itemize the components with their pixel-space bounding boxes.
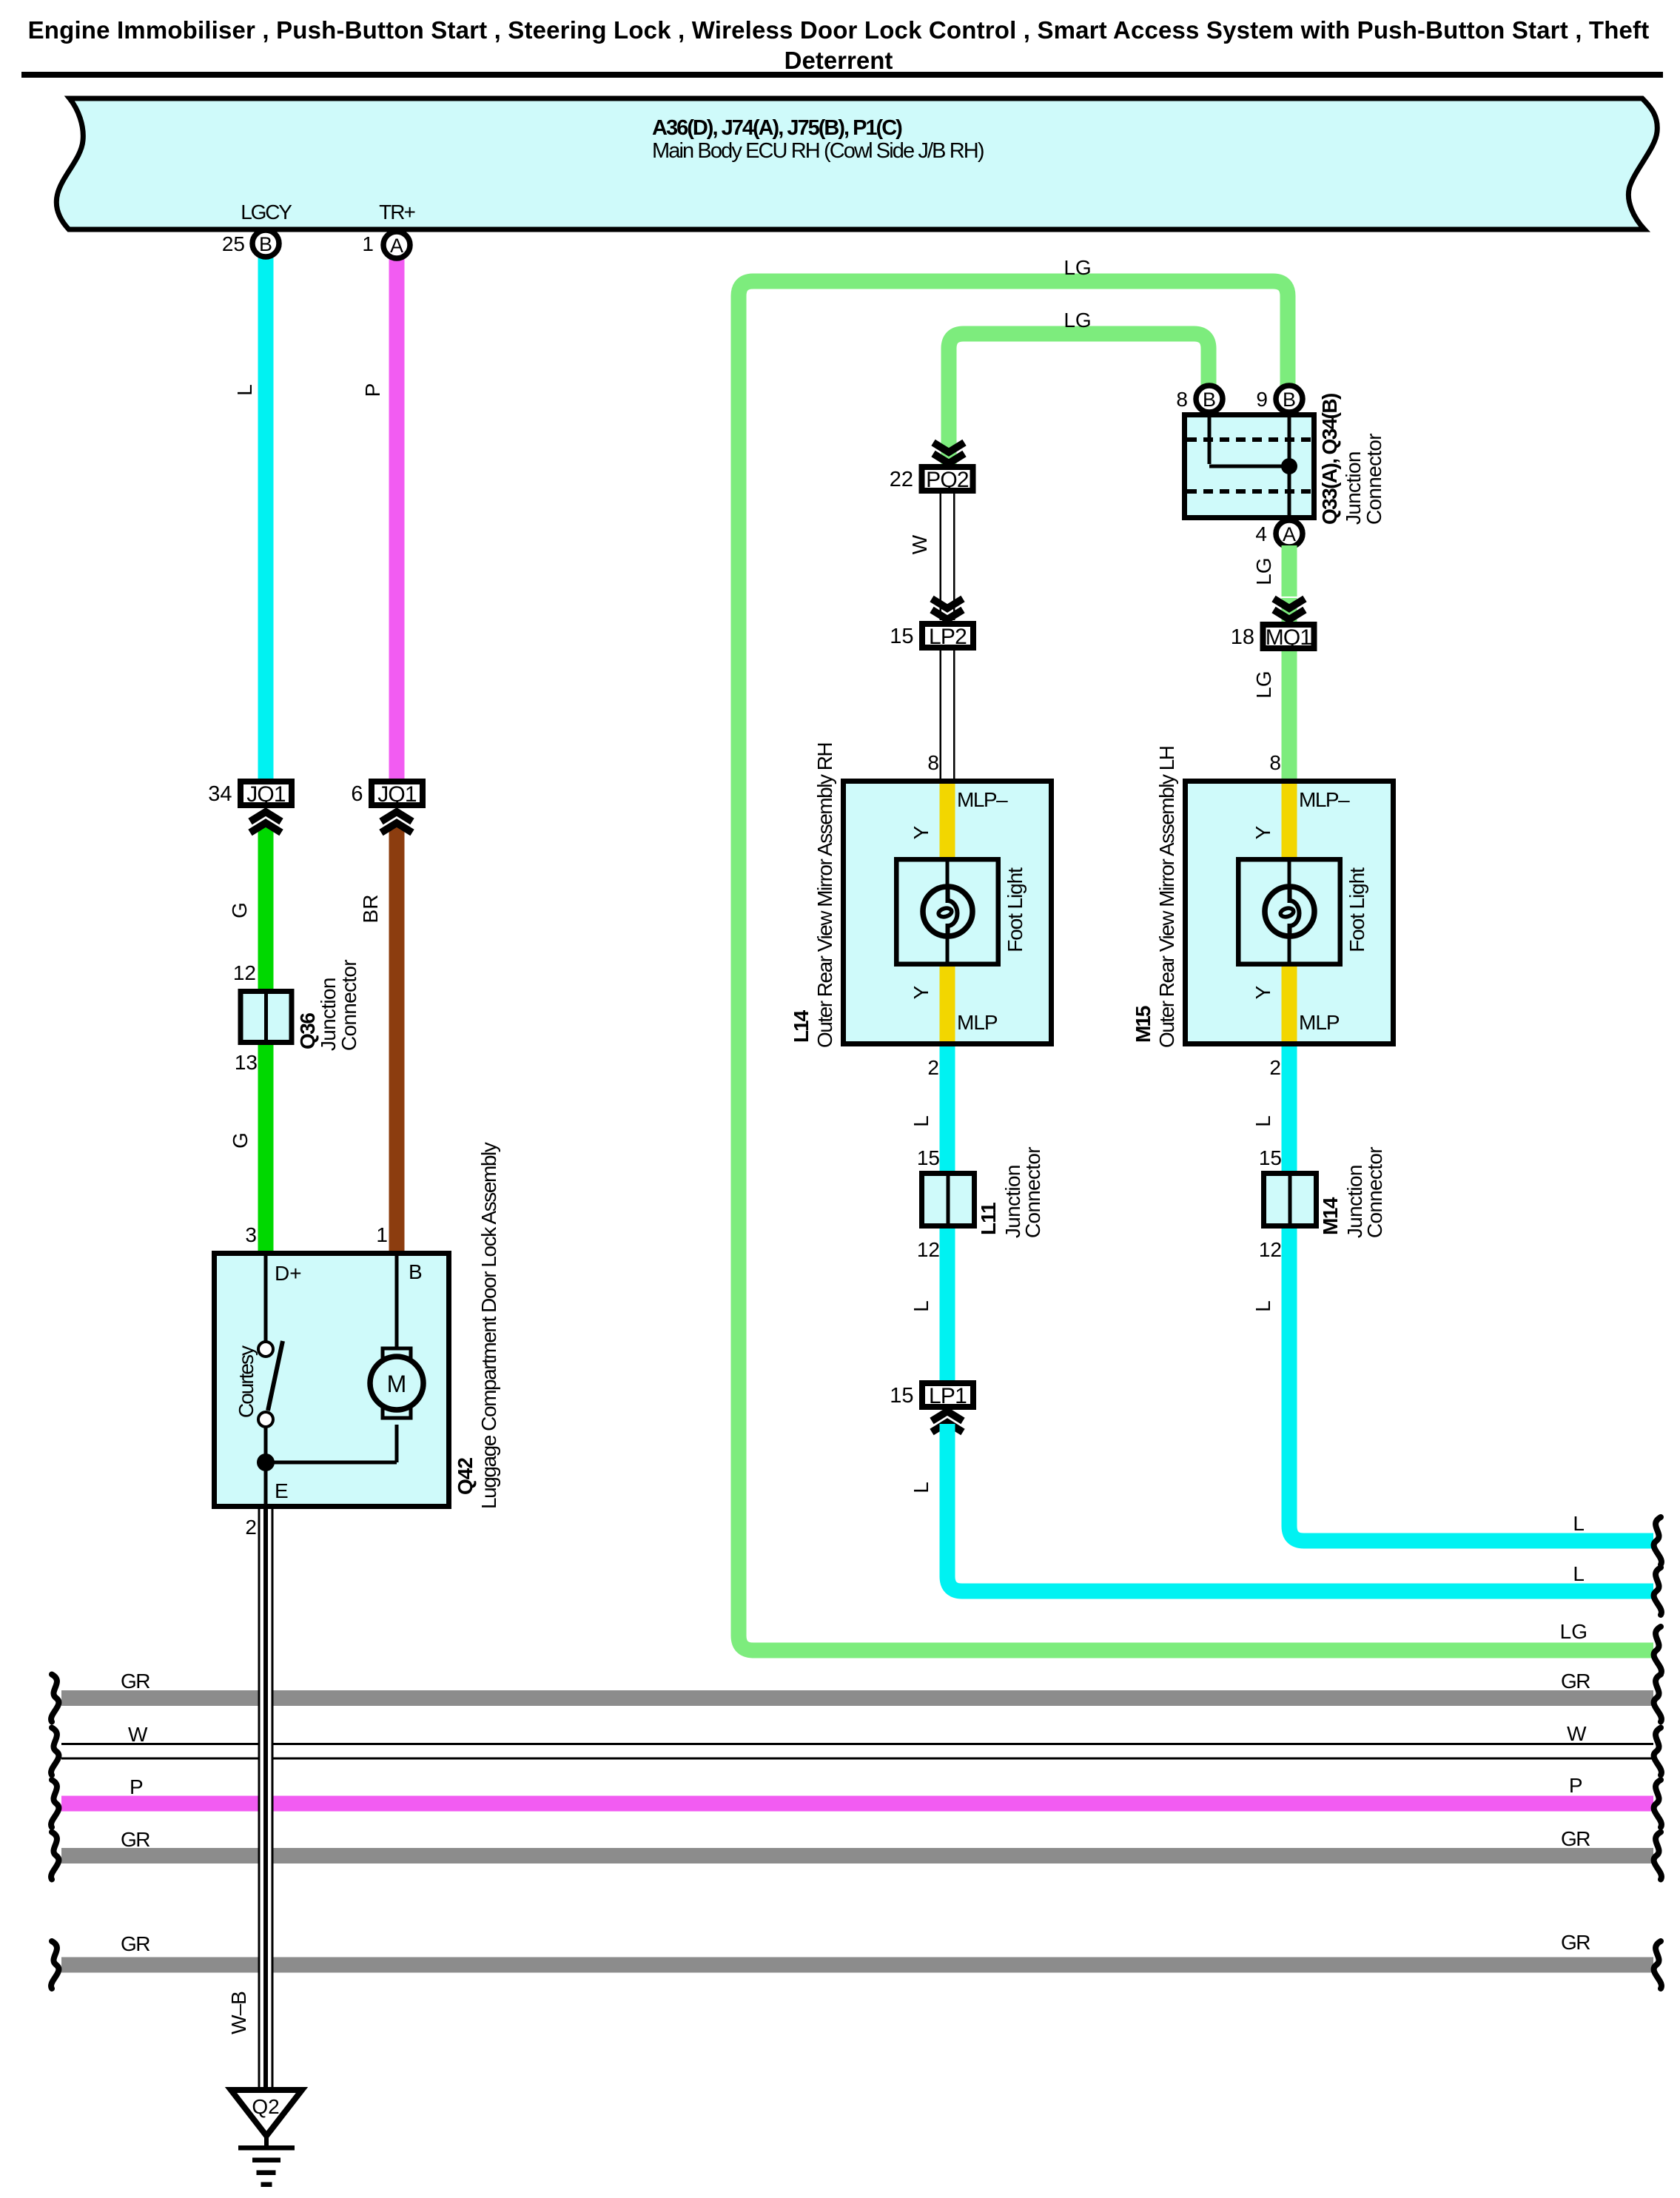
svg-text:P: P	[130, 1775, 143, 1798]
svg-text:P: P	[361, 383, 384, 397]
svg-text:3: 3	[245, 1223, 257, 1246]
svg-text:Courtesy: Courtesy	[235, 1345, 258, 1418]
svg-text:M15: M15	[1132, 1006, 1155, 1043]
svg-text:1: 1	[362, 232, 374, 255]
svg-text:12: 12	[233, 961, 256, 984]
svg-text:GR: GR	[121, 1670, 149, 1693]
svg-text:15: 15	[1259, 1146, 1282, 1169]
svg-text:Outer Rear View Mirror Assembl: Outer Rear View Mirror Assembly RH	[813, 743, 836, 1048]
svg-text:M14: M14	[1319, 1197, 1342, 1235]
svg-text:L: L	[1251, 1300, 1274, 1312]
svg-text:B: B	[409, 1260, 423, 1283]
svg-text:2: 2	[1269, 1056, 1281, 1079]
svg-text:GR: GR	[1561, 1931, 1590, 1954]
svg-text:TR+: TR+	[379, 201, 414, 224]
svg-text:W: W	[1567, 1722, 1587, 1745]
svg-text:L: L	[910, 1300, 933, 1312]
svg-text:LG: LG	[1064, 256, 1091, 279]
svg-text:L: L	[910, 1482, 933, 1493]
svg-text:L: L	[1251, 1115, 1274, 1127]
svg-text:Q36: Q36	[296, 1013, 319, 1049]
svg-text:G: G	[229, 1132, 252, 1149]
svg-text:Connector: Connector	[1021, 1147, 1044, 1238]
svg-text:Junction: Junction	[1342, 451, 1365, 525]
svg-text:Connector: Connector	[1363, 434, 1385, 525]
svg-text:A: A	[390, 235, 403, 257]
svg-text:2: 2	[245, 1516, 257, 1539]
svg-text:Luggage Compartment Door Lock: Luggage Compartment Door Lock Assembly	[477, 1142, 500, 1509]
svg-text:Y: Y	[1251, 825, 1274, 839]
svg-text:13: 13	[235, 1051, 258, 1074]
svg-text:BR: BR	[359, 895, 382, 924]
svg-text:MLP–: MLP–	[957, 788, 1008, 811]
svg-text:W–B: W–B	[227, 1992, 250, 2034]
svg-text:D+: D+	[275, 1262, 302, 1285]
svg-text:L14: L14	[790, 1009, 813, 1043]
svg-text:M: M	[387, 1371, 407, 1397]
svg-text:GR: GR	[1561, 1827, 1590, 1850]
svg-text:4: 4	[1255, 522, 1267, 545]
svg-text:L: L	[1573, 1562, 1585, 1585]
svg-text:Q2: Q2	[252, 2095, 279, 2118]
svg-text:8: 8	[1176, 388, 1188, 411]
svg-text:8: 8	[927, 751, 939, 774]
svg-text:Connector: Connector	[337, 960, 360, 1051]
svg-text:Engine Immobiliser , Push-Butt: Engine Immobiliser , Push-Button Start ,…	[28, 16, 1650, 44]
svg-text:Q42: Q42	[454, 1458, 477, 1495]
svg-text:A36(D), J74(A), J75(B), P1(C): A36(D), J74(A), J75(B), P1(C)	[652, 116, 902, 140]
svg-text:A: A	[1283, 523, 1296, 545]
svg-text:L: L	[910, 1115, 933, 1127]
svg-text:G: G	[228, 902, 251, 918]
svg-text:15: 15	[917, 1146, 940, 1169]
svg-text:Deterrent: Deterrent	[784, 47, 893, 74]
svg-text:MLP: MLP	[1299, 1011, 1340, 1034]
svg-text:MQ1: MQ1	[1266, 625, 1312, 650]
svg-text:MLP–: MLP–	[1299, 788, 1350, 811]
svg-text:34: 34	[208, 782, 232, 806]
svg-text:25: 25	[222, 232, 245, 255]
svg-text:Connector: Connector	[1363, 1147, 1386, 1238]
svg-text:2: 2	[927, 1056, 939, 1079]
svg-text:6: 6	[351, 782, 363, 806]
svg-text:W: W	[908, 534, 931, 554]
svg-text:LG: LG	[1560, 1620, 1587, 1643]
svg-text:22: 22	[890, 468, 913, 491]
svg-text:15: 15	[890, 1384, 913, 1408]
svg-text:B: B	[1283, 389, 1296, 411]
svg-text:Y: Y	[1251, 985, 1274, 999]
svg-text:JQ1: JQ1	[377, 782, 417, 807]
svg-text:Outer Rear View Mirror Assembl: Outer Rear View Mirror Assembly LH	[1155, 747, 1178, 1049]
svg-text:Junction: Junction	[317, 978, 340, 1051]
svg-text:LP2: LP2	[929, 625, 967, 649]
svg-text:B: B	[1203, 389, 1216, 411]
svg-text:12: 12	[1259, 1238, 1282, 1261]
svg-text:18: 18	[1231, 625, 1254, 649]
svg-text:8: 8	[1269, 751, 1281, 774]
svg-text:LG: LG	[1252, 671, 1275, 698]
svg-text:B: B	[259, 233, 272, 255]
svg-text:GR: GR	[1561, 1670, 1590, 1693]
svg-text:LGCY: LGCY	[241, 201, 292, 224]
svg-text:9: 9	[1256, 388, 1268, 411]
svg-text:Main Body ECU RH (Cowl Side J/: Main Body ECU RH (Cowl Side J/B RH)	[652, 139, 984, 163]
svg-text:LG: LG	[1064, 309, 1091, 332]
svg-text:PQ2: PQ2	[926, 468, 969, 492]
svg-text:Foot Light: Foot Light	[1345, 867, 1368, 952]
svg-text:L11: L11	[977, 1203, 1000, 1235]
svg-text:LP1: LP1	[929, 1384, 967, 1408]
svg-text:P: P	[1569, 1774, 1582, 1797]
svg-text:GR: GR	[121, 1932, 149, 1955]
svg-text:MLP: MLP	[957, 1011, 998, 1034]
svg-text:GR: GR	[121, 1828, 149, 1851]
svg-text:15: 15	[890, 625, 913, 648]
svg-text:12: 12	[917, 1238, 940, 1261]
svg-text:Foot Light: Foot Light	[1004, 867, 1027, 952]
svg-text:Q33(A), Q34(B): Q33(A), Q34(B)	[1318, 394, 1341, 525]
svg-text:LG: LG	[1252, 557, 1275, 585]
svg-text:Y: Y	[910, 985, 933, 999]
svg-text:E: E	[275, 1479, 289, 1502]
svg-text:Y: Y	[910, 825, 933, 839]
svg-text:JQ1: JQ1	[246, 782, 286, 807]
svg-text:L: L	[233, 384, 256, 396]
svg-text:W: W	[128, 1723, 148, 1746]
svg-text:1: 1	[376, 1223, 388, 1246]
svg-text:L: L	[1573, 1512, 1585, 1535]
